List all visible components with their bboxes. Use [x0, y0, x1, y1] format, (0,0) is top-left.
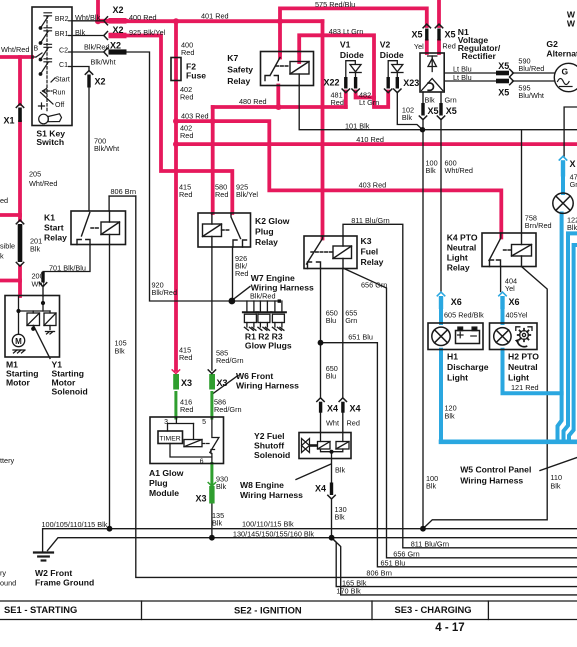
svg-text:Red: Red [215, 190, 228, 199]
svg-text:811 Blu/Grn: 811 Blu/Grn [351, 216, 389, 225]
svg-text:Wiring Harness: Wiring Harness [460, 476, 523, 486]
connector chevrons [16, 17, 513, 499]
wire 105 Blk K1 coil to ground bus [109, 245, 111, 529]
svg-text:Blk: Blk [212, 519, 222, 528]
connector X4 bar Red [341, 402, 344, 413]
wire K7 output to 480 [276, 86, 280, 108]
svg-text:575 Red/Blu: 575 Red/Blu [315, 0, 355, 9]
svg-text:Start: Start [44, 223, 64, 233]
svg-text:Blu: Blu [326, 316, 337, 325]
svg-text:Blk/Wht: Blk/Wht [94, 144, 119, 153]
svg-text:Glow Plugs: Glow Plugs [245, 341, 292, 351]
svg-text:Blk: Blk [335, 513, 345, 522]
key switch S1 box [32, 7, 72, 126]
svg-text:Grn: Grn [345, 316, 357, 325]
wire 401 Red down to K3 [321, 21, 325, 238]
svg-text:sible: sible [0, 242, 15, 251]
connector X6 bar H1 [439, 296, 443, 309]
PINK POWER NETWORK [0, 0, 577, 370]
svg-text:ttery: ttery [0, 456, 15, 465]
svg-text:Blk: Blk [445, 412, 455, 421]
wire 575 into K7 lever [278, 52, 282, 58]
module A1 box [150, 417, 224, 464]
svg-text:Red: Red [179, 190, 192, 199]
connector X6 bar H2 [500, 296, 504, 309]
wire 585 Red/Grn K2 coil down [211, 247, 213, 370]
svg-text:X: X [570, 159, 576, 169]
svg-text:X2: X2 [110, 41, 121, 51]
wire 806 Brn to K1 coil [108, 196, 110, 211]
RELAY INTERNALS [77, 58, 532, 269]
fuel gauge lamp right edge [553, 193, 573, 213]
starter M1 / solenoid Y1 internals [12, 296, 56, 353]
svg-text:401 Red: 401 Red [201, 12, 229, 21]
svg-text:5: 5 [202, 419, 206, 426]
svg-text:Relay: Relay [447, 263, 470, 273]
svg-text:656 Grn: 656 Grn [393, 550, 419, 559]
node battery/401 [95, 18, 101, 24]
svg-text:Light: Light [447, 253, 468, 263]
wire W5 cyan bus [441, 439, 577, 444]
svg-text:Blu/Red: Blu/Red [518, 64, 544, 73]
svg-text:SE2 - IGNITION: SE2 - IGNITION [234, 605, 302, 616]
svg-text:Relay: Relay [255, 237, 278, 247]
svg-text:SE1 - STARTING: SE1 - STARTING [4, 604, 77, 615]
ground W2 [34, 553, 53, 561]
svg-text:Shutoff: Shutoff [254, 441, 284, 451]
svg-text:Blk: Blk [426, 482, 436, 491]
svg-text:Light: Light [508, 373, 529, 383]
svg-text:X5: X5 [498, 88, 509, 98]
svg-text:X2: X2 [95, 77, 106, 87]
X2 connector BR2 pink bar [109, 18, 127, 24]
svg-text:Blk/Red: Blk/Red [250, 292, 276, 301]
connector X4 bar Blk [330, 483, 333, 496]
relay K4 internals [489, 233, 532, 267]
svg-text:X5: X5 [446, 106, 457, 116]
node 100 Blk ground [420, 526, 426, 532]
connector X2 bar 700 [87, 75, 90, 88]
svg-text:A1 Glow: A1 Glow [149, 468, 184, 478]
wire 480 Red [213, 105, 346, 109]
connector X3 bar 415/416 [173, 374, 179, 390]
svg-text:100/105/110/115 Blk: 100/105/110/115 Blk [42, 520, 108, 529]
wire X5 Red top [437, 0, 441, 26]
wire 400 Red S1 side [98, 19, 127, 23]
svg-text:Wiring Harness: Wiring Harness [240, 490, 303, 500]
wire 110 Blk K4 coil to ground [423, 267, 547, 529]
svg-text:Wht/Red: Wht/Red [29, 179, 57, 188]
svg-text:701 Blk/Blu: 701 Blk/Blu [49, 264, 86, 273]
svg-text:Solenoid: Solenoid [254, 450, 290, 460]
wire 403 Red [176, 121, 501, 237]
svg-text:Safety: Safety [227, 65, 253, 75]
glow bus end tick [278, 299, 281, 302]
chevron X5 LtBlu upper [510, 69, 514, 76]
svg-text:X3: X3 [181, 378, 192, 388]
node 101/102/100 [420, 127, 425, 132]
svg-text:H2 PTO: H2 PTO [508, 352, 539, 362]
wire 483 into K7 coil [297, 52, 301, 62]
svg-text:Wht/Red: Wht/Red [1, 45, 29, 54]
relay K3 box [304, 236, 357, 269]
svg-text:Wiring Harness: Wiring Harness [236, 381, 299, 391]
wire 758 Brn/Red [521, 130, 523, 233]
svg-text:651 Blu: 651 Blu [348, 333, 373, 342]
chevron 701 [39, 283, 46, 287]
wire Blk BR1 [72, 35, 104, 37]
wire 655 Grn K3 coil to X4 [342, 269, 344, 398]
node M1 coil bottom [31, 327, 35, 331]
chevron X2 C2 [104, 48, 108, 56]
leader W8 [296, 464, 331, 480]
svg-text:K7: K7 [227, 53, 238, 63]
wire 416 Red green segment [174, 393, 177, 419]
lamp H2 [494, 328, 511, 345]
regulator N1 box [420, 53, 444, 92]
svg-text:W5 Control Panel: W5 Control Panel [460, 465, 531, 475]
relay K3 internals [307, 236, 352, 269]
svg-text:Lt Grn: Lt Grn [359, 98, 379, 107]
wire 122 Blk lamp down [558, 214, 562, 442]
wire N1 Grn pin [440, 92, 442, 103]
connector X5 bar LtBlu lower [496, 79, 509, 84]
svg-text:Switch: Switch [36, 137, 64, 147]
node 651/650 [318, 340, 324, 346]
green connector bars [173, 374, 215, 504]
svg-text:Red: Red [181, 48, 194, 57]
svg-text:Diode: Diode [380, 50, 404, 60]
relay K1 box [71, 211, 126, 245]
svg-text:480 Red: 480 Red [239, 97, 267, 106]
svg-text:X23: X23 [403, 78, 419, 88]
wire battery stub lower [0, 279, 20, 283]
wire 806 Brn label bar [109, 195, 136, 197]
svg-text:X4: X4 [315, 484, 326, 494]
COMPONENT BOXES [5, 7, 537, 464]
wire 404 Yel K4 to X6 [500, 267, 502, 292]
svg-text:Relay: Relay [44, 233, 67, 243]
chevron X5 Red top [435, 24, 442, 28]
wire B terminal Wht/Red [0, 55, 32, 59]
leader Y1 [34, 326, 51, 359]
node 105 Blk ground [107, 526, 113, 532]
svg-text:W: W [567, 19, 576, 29]
svg-text:Blk: Blk [567, 223, 577, 232]
svg-text:ound: ound [0, 579, 16, 588]
svg-text:Red: Red [180, 131, 193, 140]
section bar [0, 601, 577, 620]
chevron X2 BR1 [104, 32, 108, 40]
chevron X22 left [342, 89, 349, 93]
svg-text:V2: V2 [380, 40, 391, 50]
svg-text:Fuel: Fuel [361, 247, 379, 257]
svg-text:k: k [0, 252, 4, 261]
svg-text:X5: X5 [445, 30, 456, 40]
svg-text:X5: X5 [428, 106, 439, 116]
connector X1 bar [18, 108, 22, 123]
svg-text:Off: Off [55, 102, 64, 109]
wire 483 Lt Grn [299, 35, 388, 107]
node 403/580 [210, 118, 216, 124]
wire 121 Red H2 down and right [503, 350, 562, 394]
wire battery feed top [96, 0, 100, 21]
chevron X6 H1 [437, 292, 444, 296]
svg-text:806 Brn: 806 Brn [111, 187, 137, 196]
svg-text:W7 Engine: W7 Engine [251, 273, 295, 283]
chevron X3 585 [208, 370, 215, 374]
svg-text:Diode: Diode [340, 50, 364, 60]
connector X3 bar 930/135 [209, 486, 214, 504]
svg-text:V1: V1 [340, 40, 351, 50]
wire 656 Grn diagonal and drop [344, 269, 577, 558]
svg-text:Blk: Blk [115, 347, 125, 356]
regulator N1 internals [422, 56, 443, 91]
relay K7 internals [265, 58, 309, 81]
svg-text:605 Red/Blk: 605 Red/Blk [444, 311, 484, 320]
contact B [32, 53, 42, 57]
connector X5 bar Blk [421, 103, 424, 116]
node M1 701 entry [41, 301, 45, 305]
wire right bus stub 1 [564, 233, 577, 441]
starter M1 box [5, 296, 60, 358]
node 575/401 [277, 18, 283, 24]
svg-text:X3: X3 [196, 494, 207, 504]
key symbol [39, 114, 49, 124]
timer box [158, 431, 183, 444]
relay K2 box [198, 213, 251, 247]
svg-text:X5: X5 [412, 30, 423, 40]
wire 101 Blk [299, 74, 577, 130]
wire glow plug bus Blk/Red [232, 300, 280, 302]
svg-text:Fuse: Fuse [186, 71, 206, 81]
wire 170 Blk [332, 538, 577, 595]
svg-text:651 Blu: 651 Blu [381, 559, 406, 568]
svg-text:X6: X6 [509, 297, 520, 307]
black connector bars [18, 29, 509, 496]
chevron X6 H2 [499, 292, 506, 296]
connector X5 bar Red [437, 29, 440, 41]
wire 135 Blk [211, 504, 213, 538]
svg-text:806 Brn: 806 Brn [366, 569, 392, 578]
fusible link bar [18, 224, 23, 262]
svg-text:101 Blk: 101 Blk [345, 122, 370, 131]
svg-text:Motor: Motor [6, 378, 31, 388]
connector X22 bar right [354, 77, 357, 89]
svg-text:Blk: Blk [426, 166, 436, 175]
svg-text:Brn/Red: Brn/Red [525, 221, 552, 230]
wire 402 Red fuse branch [174, 21, 178, 370]
valve symbol [302, 439, 310, 453]
wire 477 Grn connector to lamp [561, 177, 565, 194]
pink junction dots [95, 18, 283, 147]
chevron fusible bottom [16, 262, 23, 266]
svg-text:C2: C2 [59, 47, 68, 54]
wire 605 Red/Blk X6 to H1 [439, 309, 443, 323]
svg-text:4 - 17: 4 - 17 [435, 622, 464, 634]
coil 1 [318, 442, 331, 450]
relay K4 box [482, 233, 536, 267]
wire 410 Red [176, 142, 577, 146]
wire 701 Blk/Blu [43, 245, 90, 297]
svg-text:X5: X5 [498, 61, 509, 71]
svg-text:Blu: Blu [326, 372, 337, 381]
svg-text:Blk/Red: Blk/Red [152, 288, 178, 297]
svg-text:Wht/Red: Wht/Red [445, 166, 473, 175]
wire 925 Blk/Yel from X2 [127, 36, 233, 214]
svg-text:Blk: Blk [402, 113, 412, 122]
wire 600 Wht/Red [440, 119, 442, 292]
svg-text:3: 3 [164, 419, 168, 426]
node 135 Blk ground [209, 535, 215, 541]
svg-text:403 Red: 403 Red [181, 112, 209, 121]
wire 100 Blk [422, 119, 424, 529]
svg-text:Wht: Wht [326, 419, 339, 428]
svg-text:Neutral: Neutral [447, 243, 477, 253]
svg-text:Neutral: Neutral [508, 362, 538, 372]
node W7 glow plug junction [229, 298, 236, 305]
chevron X2 BR2 [104, 17, 108, 25]
svg-text:K3: K3 [361, 236, 372, 246]
lamp H1 [432, 327, 450, 345]
alternator G2 [554, 63, 577, 91]
svg-text:W8 Engine: W8 Engine [240, 480, 284, 490]
svg-text:Blk: Blk [550, 482, 560, 491]
chevron X23 left [385, 89, 392, 93]
svg-text:C1: C1 [59, 62, 68, 69]
wire Blk/Red C2 / 920 Blk/Red [72, 52, 232, 301]
svg-text:Blu/Wht: Blu/Wht [518, 91, 544, 100]
svg-text:483 Lt Grn: 483 Lt Grn [329, 27, 363, 36]
svg-text:Frame Ground: Frame Ground [35, 578, 94, 588]
contact C1 [39, 59, 72, 75]
relay K1 internals [77, 211, 120, 245]
node Y2 common [330, 450, 334, 454]
light H1 box [428, 323, 483, 350]
chevron X3 415 [172, 370, 179, 374]
svg-text:925 Blk/Yel: 925 Blk/Yel [129, 28, 166, 37]
chevron X4 Red [339, 398, 346, 402]
svg-text:X3: X3 [217, 378, 228, 388]
svg-text:Grn: Grn [570, 180, 577, 189]
wire 481 Red to X22 [344, 92, 348, 108]
svg-text:130/145/150/155/160 Blk: 130/145/150/155/160 Blk [233, 530, 314, 539]
wire 926 Blk/Red K2 output [232, 247, 234, 301]
start run off mechanism [51, 78, 55, 82]
chevron X1 [16, 104, 23, 108]
chevron X22 right [352, 89, 359, 93]
svg-text:Run: Run [53, 90, 66, 97]
chevron fusible top [16, 220, 23, 224]
wire 120 Blk H1 down [439, 350, 443, 442]
contact C2 [39, 44, 72, 61]
svg-text:X2: X2 [113, 5, 124, 15]
light H2 box [490, 323, 538, 350]
diode V1 symbol [346, 61, 362, 77]
svg-text:205: 205 [29, 170, 41, 179]
svg-text:403 Red: 403 Red [359, 181, 387, 190]
cyan connector bars [439, 160, 565, 309]
svg-text:121 Red: 121 Red [511, 383, 539, 392]
svg-text:Wht/Blk: Wht/Blk [75, 13, 100, 22]
svg-text:Blk: Blk [216, 482, 226, 491]
svg-text:Red: Red [331, 98, 344, 107]
svg-text:Yel: Yel [505, 284, 515, 293]
svg-text:Blk/Wht: Blk/Wht [91, 58, 116, 67]
svg-text:Wht: Wht [32, 280, 45, 289]
wire 930 Blk green segment [210, 464, 213, 487]
svg-text:BR2: BR2 [55, 16, 69, 23]
svg-text:Blk: Blk [30, 245, 40, 254]
wire 200 Wht [18, 267, 22, 297]
svg-text:X1: X1 [4, 116, 15, 126]
svg-text:Red/Grn: Red/Grn [214, 405, 242, 414]
svg-text:Plug: Plug [149, 478, 168, 488]
wire Blk Y2 to X4 [331, 459, 333, 538]
wire Lt Blu lower [444, 80, 554, 82]
wire Blk/Wht C1 / 700 Blk/Wht [72, 67, 89, 212]
svg-text:X4: X4 [327, 404, 338, 414]
relay K7 box [261, 52, 314, 86]
wire 806 Brn long drop [136, 196, 577, 577]
svg-text:811 Blu/Grn: 811 Blu/Grn [411, 540, 449, 549]
svg-text:Module: Module [149, 488, 179, 498]
wire 580 Red down to K2 [211, 107, 215, 213]
svg-text:G: G [562, 67, 569, 77]
svg-text:TIMER: TIMER [160, 436, 181, 443]
wire N1 Blk pin [422, 92, 424, 103]
svg-text:Blk: Blk [425, 96, 435, 105]
wire ground bus 2 130/145/150/155/160 Blk [48, 538, 577, 551]
svg-text:405Yel: 405Yel [506, 311, 528, 320]
pink chevrons X3 [172, 370, 179, 374]
wire X5 Red into N1 [437, 41, 441, 53]
chevron X5 LtBlu lower [510, 77, 514, 84]
PTO icon in H2 [515, 327, 532, 347]
svg-text:ry: ry [0, 569, 6, 578]
svg-text:K1: K1 [44, 213, 55, 223]
wire right bus stub 2 [569, 245, 577, 442]
svg-text:Red: Red [347, 419, 360, 428]
module A1 internals [168, 418, 219, 464]
green X3 wire segments [176, 393, 212, 487]
svg-text:Discharge: Discharge [447, 362, 489, 372]
svg-text:H1: H1 [447, 352, 458, 362]
chevron X5 Blk [419, 116, 426, 120]
wire X5 Yel into N1 [425, 41, 429, 53]
wire 650 Blu K3 to X4 [320, 269, 322, 398]
wire top right feed [564, 107, 577, 156]
svg-text:Blk: Blk [335, 466, 345, 475]
relay K2 internals [203, 213, 247, 247]
svg-text:170 Blk: 170 Blk [336, 587, 361, 596]
wire 400/401 Red [98, 19, 323, 23]
svg-text:W6 Front: W6 Front [236, 371, 273, 381]
wire X4 Red into Y2 [342, 413, 344, 433]
svg-text:Red/Grn: Red/Grn [216, 356, 244, 365]
leader W7 [233, 287, 250, 300]
svg-text:Blk/Red: Blk/Red [84, 43, 110, 52]
svg-text:Start: Start [55, 77, 70, 84]
contact BR2 [39, 13, 72, 30]
node M1 bus left [16, 309, 20, 313]
svg-text:Red: Red [180, 405, 193, 414]
svg-text:G2: G2 [546, 39, 558, 49]
svg-text:W2 Front: W2 Front [35, 568, 72, 578]
glow plugs R1 R2 R3 [243, 301, 286, 330]
svg-text:Red: Red [442, 42, 455, 51]
X2 connector BR1 pink bar [109, 33, 127, 39]
